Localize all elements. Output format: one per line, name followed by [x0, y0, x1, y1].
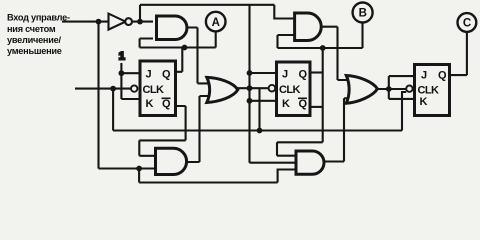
terminal B circle	[353, 3, 373, 23]
svg-text:B: B	[359, 8, 367, 20]
AND gate AND2	[295, 13, 322, 41]
node clock branch junction	[110, 86, 116, 92]
wire: inverter output to AND1 top input	[132, 21, 153, 23]
wire: Q-bar2 stub	[310, 106, 323, 108]
wire: AND1 output to OR1	[187, 28, 213, 84]
wire: loop to AND1 bottom input	[140, 39, 153, 48]
node Q2/B junction	[320, 45, 326, 51]
svg-text:CLK: CLK	[418, 85, 439, 97]
wire: count-direction input X	[62, 21, 109, 23]
svg-text:K: K	[146, 98, 154, 110]
svg-text:Q: Q	[162, 98, 171, 110]
svg-text:Q: Q	[299, 69, 308, 81]
wire: clock rail bottom	[113, 129, 402, 131]
wire: loop to AND4 top input	[277, 142, 323, 155]
svg-text:1: 1	[119, 51, 125, 63]
wire: AND3 output to OR1	[187, 96, 213, 162]
AND gate AND3	[156, 148, 187, 174]
text: count control input label	[7, 13, 70, 57]
svg-text:Q: Q	[162, 69, 171, 81]
inverter U1	[109, 14, 126, 30]
svg-text:J: J	[282, 69, 288, 81]
OR gate OR1	[207, 77, 238, 102]
wire: Q1 horizontal to A	[140, 46, 216, 48]
svg-text:K: K	[282, 98, 290, 110]
svg-text:Q: Q	[299, 98, 308, 110]
svg-text:A: A	[212, 17, 220, 29]
svg-text:ния счетом: ния счетом	[7, 24, 56, 34]
wire: clock branch down	[112, 89, 114, 131]
node K2 junction	[247, 98, 253, 104]
node X/AND3 junction	[136, 166, 142, 172]
wire: OR1 output to CLK2	[237, 87, 269, 89]
flip-flop FF1 box	[140, 61, 176, 116]
wire: loop to AND2 bottom input	[278, 35, 296, 48]
terminal C circle	[458, 13, 477, 32]
terminal A circle	[206, 12, 226, 32]
wire: K3 input	[389, 89, 415, 99]
wire: Q2/B vertical	[322, 48, 324, 142]
wire: rail down to AND2 top input	[274, 5, 295, 19]
svg-text:Вход управле-: Вход управле-	[7, 13, 70, 23]
wire: AND2 output to OR2	[321, 27, 350, 80]
wire: B horizontal	[278, 47, 363, 49]
node Q1/A junction	[182, 45, 188, 51]
svg-text:K: K	[420, 96, 428, 108]
flip-flop FF2 pin labels	[279, 69, 308, 111]
flip-flop FF3 box	[415, 65, 450, 116]
node X input junction	[96, 19, 102, 25]
node J2 junction	[247, 70, 253, 76]
wire: CLK2 riser	[258, 88, 260, 130]
wire: X riser to AND4 bottom input	[278, 170, 296, 183]
svg-text:J: J	[421, 70, 427, 82]
flip-flop FF1 pin labels	[143, 69, 172, 111]
wire: AND4 output to OR2	[324, 98, 351, 161]
node inverter output junction	[137, 19, 143, 25]
wire: drop to AND4 middle input	[250, 162, 296, 164]
bubble CLK1	[131, 85, 137, 91]
svg-text:уменьшение: уменьшение	[7, 46, 62, 56]
wire: Q2 output stub	[310, 71, 323, 73]
wire: J2 input	[250, 72, 278, 74]
AND gate AND1	[157, 16, 187, 40]
wire: X bottom rail	[139, 181, 278, 183]
node OR2 output junction	[386, 86, 392, 92]
AND gate AND4	[296, 151, 324, 174]
svg-text:CLK: CLK	[143, 84, 164, 96]
svg-text:J: J	[146, 69, 152, 81]
flip-flop FF2 box	[277, 62, 311, 116]
wire: B stem	[361, 22, 363, 48]
wire: A stem	[215, 31, 217, 48]
wire: Q3 output to C	[450, 32, 467, 75]
wire: logic 1 line to J1 K1	[121, 63, 140, 99]
node J1 junction	[119, 70, 125, 76]
svg-text:Q: Q	[438, 70, 447, 82]
node OR1/drop junction	[247, 85, 253, 91]
wire: riser to top rail	[139, 5, 141, 22]
bubble CLK2	[269, 85, 276, 92]
wire: CLK3 riser	[402, 92, 406, 131]
flip-flop FF3 pin labels	[418, 70, 448, 109]
svg-text:CLK: CLK	[279, 84, 300, 96]
wire: top rail (inverted X)	[140, 4, 274, 6]
wire: clock input	[75, 88, 131, 90]
node clock rail / CLK2 riser junction	[257, 128, 263, 134]
wire: K2 input	[250, 100, 278, 102]
svg-text:C: C	[463, 18, 471, 30]
wire: X to AND3 bottom input	[99, 167, 157, 169]
wire: X drop to bottom rail	[138, 169, 140, 183]
wire: X vertical drop left side	[97, 22, 99, 169]
wire: Q-bar1 loop to AND3 top input	[139, 106, 185, 156]
wire: Q1 output riser	[175, 48, 182, 72]
wire: OR2 output to CLK3	[377, 88, 406, 90]
OR gate OR2	[346, 76, 377, 104]
wire: J3 input	[389, 76, 415, 89]
bubble CLK3	[406, 86, 412, 92]
svg-text:увеличение/: увеличение/	[7, 35, 61, 45]
wire: inverted-X long drop	[248, 5, 250, 163]
